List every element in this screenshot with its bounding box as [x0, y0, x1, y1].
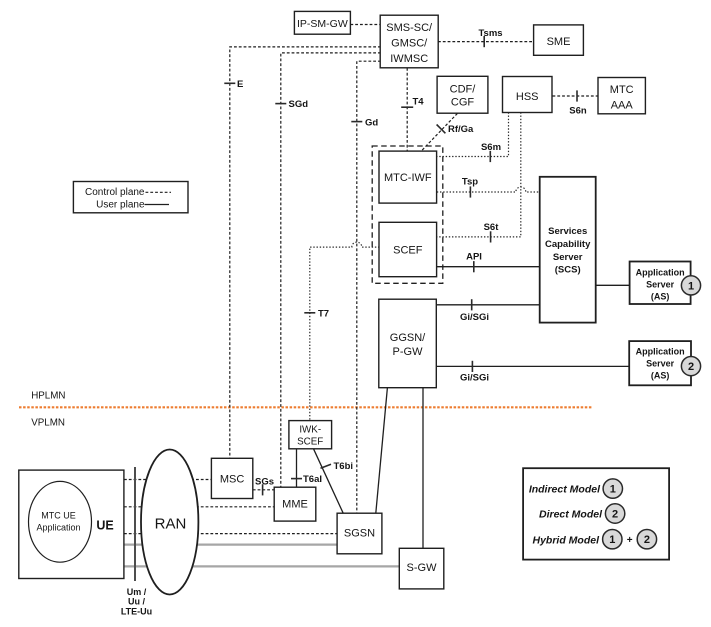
svg-text:UE: UE — [96, 519, 113, 533]
wire T7: SCEF left to IWK-SCEF top, hop over Gd (dotted) — [310, 242, 380, 421]
svg-text:GGSN/: GGSN/ — [390, 332, 426, 344]
box S-GW — [399, 548, 444, 589]
svg-text:S6t: S6t — [484, 222, 500, 233]
svg-text:MTC: MTC — [610, 84, 634, 96]
wire UE/RAN to MSC (dashed) — [124, 479, 211, 481]
svg-text:SGd: SGd — [289, 99, 309, 110]
wire Rf/Ga: CDF/CGF to MTC-IWF (dashed diagonal) — [421, 113, 457, 151]
svg-text:Application: Application — [636, 267, 685, 277]
svg-text:User plane: User plane — [96, 200, 145, 211]
wire S6n: HSS to MTC AAA (dashed) — [553, 95, 599, 97]
wire T6bi: IWK-SCEF bottom to SGSN top (solid diagonal) — [314, 449, 344, 513]
legend box control/user plane — [73, 182, 188, 213]
wire GGSN to SGSN (solid diagonal) — [376, 388, 388, 514]
svg-text:T6bi: T6bi — [334, 461, 354, 472]
svg-text:Server: Server — [646, 279, 675, 289]
svg-text:Tsms: Tsms — [478, 28, 502, 39]
box SCEF — [379, 222, 437, 276]
wire T6ai: IWK-SCEF bottom to MME top (solid) — [296, 449, 298, 487]
tick T4 — [401, 106, 413, 108]
badge circle 1b — [603, 530, 622, 549]
tick Gd — [351, 121, 362, 123]
svg-text:AAA: AAA — [611, 99, 634, 111]
svg-text:Direct Model: Direct Model — [539, 509, 603, 521]
svg-text:IP-SM-GW: IP-SM-GW — [297, 18, 348, 30]
svg-text:Tsp: Tsp — [462, 176, 478, 187]
svg-text:IWMSC: IWMSC — [390, 53, 428, 65]
svg-text:Capability: Capability — [545, 239, 591, 250]
svg-text:Application: Application — [636, 347, 685, 357]
ellipse MTC UE Application — [29, 481, 92, 562]
wire Gi/SGi lower: GGSN/P-GW right to Application Server 2 (solid) — [437, 365, 630, 367]
wire user plane UE to SGSN (grey) — [124, 543, 337, 545]
svg-text:Server: Server — [646, 359, 675, 369]
svg-text:CDF/: CDF/ — [450, 84, 477, 96]
svg-text:S6m: S6m — [481, 142, 501, 153]
svg-text:SGs: SGs — [255, 476, 274, 487]
dashed group box around MTC-IWF and SCEF — [372, 146, 443, 283]
legend box models — [523, 468, 669, 559]
svg-text:2: 2 — [612, 509, 618, 521]
Um/Uu reference line — [134, 467, 136, 581]
box MTC AAA — [598, 78, 645, 114]
svg-text:2: 2 — [688, 361, 694, 373]
wire Gi/SGi upper: GGSN/P-GW right to SCS left (solid) — [437, 304, 540, 306]
tick SGd — [275, 103, 286, 105]
svg-text:MME: MME — [282, 499, 308, 511]
svg-text:T6aI: T6aI — [303, 474, 322, 485]
wire API: SCEF right to SCS left (solid) — [437, 266, 540, 268]
svg-text:Control plane: Control plane — [85, 187, 145, 198]
svg-text:Indirect Model: Indirect Model — [529, 484, 601, 496]
box IWK-SCEF — [289, 421, 332, 449]
svg-text:SMS-SC/: SMS-SC/ — [386, 22, 433, 34]
svg-text:Gi/SGi: Gi/SGi — [460, 373, 489, 384]
tick Tsms — [483, 36, 485, 47]
tick Gi/SGi upper — [471, 299, 473, 310]
svg-text:(AS): (AS) — [651, 291, 670, 301]
badge circle 2 — [605, 504, 624, 523]
RAN ellipse — [141, 450, 198, 595]
svg-text:1: 1 — [610, 484, 616, 496]
svg-text:HPLMN: HPLMN — [31, 390, 65, 401]
svg-text:CGF: CGF — [451, 97, 475, 109]
wire UE/RAN to MME (dashed) — [124, 506, 274, 508]
svg-text:S-GW: S-GW — [407, 562, 438, 574]
badge circle 1 on AS1 — [681, 276, 700, 295]
sample dashed line — [146, 191, 172, 193]
badge circle 1 — [603, 479, 622, 498]
wire Gd: SMS-SC left to SGSN top (dashed) — [357, 61, 381, 513]
wire Tsms: SMS-SC to SME (dashed) — [438, 41, 534, 43]
box CDF/CGF — [437, 76, 488, 113]
svg-text:(AS): (AS) — [651, 371, 670, 381]
tick T6ai — [291, 478, 302, 480]
wire T4: SMS-SC bottom to MTC-IWF top (dashed) — [406, 68, 408, 151]
svg-text:T7: T7 — [318, 308, 329, 319]
wire SCS to Application Server 1 (solid) — [596, 284, 630, 286]
wire user plane UE to S-GW (grey) — [124, 565, 399, 567]
box MME — [274, 487, 316, 521]
wire S6m: HSS bottom to MTC-IWF right (dotted) — [437, 112, 509, 156]
svg-text:S6n: S6n — [569, 106, 587, 117]
tick S6t — [490, 231, 492, 242]
tick S6n — [576, 90, 578, 101]
svg-text:Application: Application — [36, 522, 80, 532]
HPLMN/VPLMN boundary (orange dotted) — [19, 406, 592, 408]
tick E — [224, 82, 235, 84]
box Services Capability Server (SCS) — [540, 177, 596, 323]
svg-text:2: 2 — [644, 534, 650, 546]
tick API — [473, 261, 475, 272]
wire SGs: MSC to MME (dashed) — [253, 489, 274, 491]
svg-text:Uu /: Uu / — [128, 597, 145, 607]
svg-text:API: API — [466, 252, 482, 263]
wire SGd: SMS-SC left to MME top (dashed) — [281, 53, 381, 487]
svg-text:E: E — [237, 79, 243, 90]
box IP-SM-GW — [294, 11, 350, 34]
box HSS — [503, 77, 553, 113]
box SGSN — [337, 513, 382, 554]
svg-text:RAN: RAN — [155, 516, 187, 533]
svg-text:SCEF: SCEF — [393, 244, 423, 256]
wire UE/RAN to SGSN (dashed) — [124, 533, 337, 535]
svg-text:MSC: MSC — [220, 474, 245, 486]
tick SGs — [262, 484, 264, 495]
svg-text:MTC UE: MTC UE — [41, 511, 76, 521]
wire S6t: HSS bottom drop to SCEF right (dotted) — [437, 112, 521, 237]
svg-text:Rf/Ga: Rf/Ga — [448, 124, 474, 135]
svg-text:Hybrid Model: Hybrid Model — [532, 534, 600, 546]
svg-text:Services: Services — [548, 226, 587, 237]
svg-text:VPLMN: VPLMN — [31, 417, 65, 428]
svg-text:LTE-Uu: LTE-Uu — [121, 607, 152, 617]
svg-text:(SCS): (SCS) — [555, 265, 581, 276]
box MTC-IWF — [379, 151, 437, 203]
tick Tsp — [469, 186, 471, 197]
svg-text:SGSN: SGSN — [344, 528, 375, 540]
svg-text:Um /: Um / — [127, 587, 147, 597]
box SME — [534, 25, 584, 55]
wire GGSN to S-GW (solid vertical) — [422, 388, 424, 549]
box MSC — [211, 458, 252, 498]
svg-text:P-GW: P-GW — [393, 346, 424, 358]
tick Rf/Ga — [437, 125, 446, 134]
box Application Server (AS) 2 — [629, 341, 691, 385]
box Application Server (AS) 1 — [630, 262, 691, 305]
box UE — [19, 470, 124, 578]
badge circle 2b — [637, 530, 656, 549]
svg-text:HSS: HSS — [516, 91, 539, 103]
badge circle 2 on AS2 — [681, 357, 700, 376]
svg-text:T4: T4 — [413, 96, 425, 107]
svg-text:SME: SME — [547, 36, 571, 48]
wire E: SMS-SC left to MSC top (dashed) — [230, 47, 381, 458]
tick Gi/SGi lower — [471, 361, 473, 372]
wire Tsp: MTC-IWF right to SCS left, hop over HSS drop (dotted) — [437, 187, 540, 192]
tick S6m — [489, 151, 491, 162]
sample solid line — [145, 204, 170, 206]
box GGSN/P-GW — [379, 299, 437, 388]
svg-text:IWK-: IWK- — [299, 425, 321, 436]
svg-text:Gd: Gd — [365, 117, 378, 128]
svg-text:1: 1 — [609, 534, 615, 546]
wire IP-SM-GW to SMS-SC (dashed) — [350, 24, 380, 26]
box SMS-SC/GMSC/IWMSC — [380, 15, 438, 68]
svg-text:+: + — [627, 535, 633, 546]
svg-text:SCEF: SCEF — [297, 437, 323, 448]
svg-text:Gi/SGi: Gi/SGi — [460, 312, 489, 323]
svg-text:1: 1 — [688, 280, 694, 292]
tick T7 — [304, 312, 315, 314]
svg-text:Server: Server — [553, 252, 583, 263]
svg-text:MTC-IWF: MTC-IWF — [384, 172, 432, 184]
tick T6bi — [321, 464, 332, 468]
svg-text:GMSC/: GMSC/ — [391, 38, 428, 50]
